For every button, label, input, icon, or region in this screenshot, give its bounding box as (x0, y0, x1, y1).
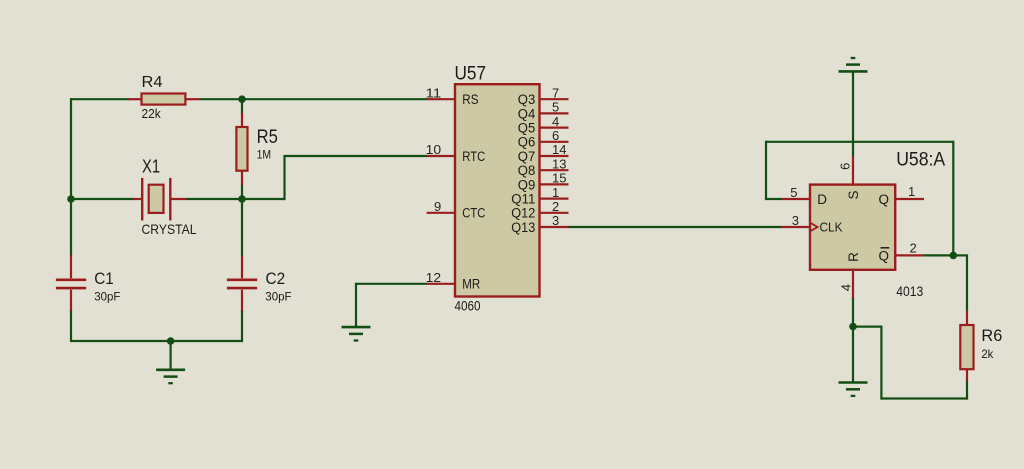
pin stub CLK U58 (781, 226, 810, 228)
svg-text:U57: U57 (455, 64, 487, 85)
svg-text:D: D (817, 192, 827, 207)
svg-text:Q: Q (878, 192, 889, 207)
pin stub Q9 U57 (540, 183, 569, 185)
ic U58:A body (810, 185, 895, 270)
svg-text:MR: MR (462, 277, 480, 292)
svg-text:Q5: Q5 (518, 121, 536, 136)
svg-text:1: 1 (908, 184, 915, 199)
wire bottom-right rail (881, 397, 968, 399)
svg-text:13: 13 (552, 156, 566, 171)
pin stub Qbar U58 (895, 254, 924, 256)
svg-text:X1: X1 (142, 155, 160, 176)
svg-text:CTC: CTC (462, 206, 485, 221)
svg-text:15: 15 (552, 171, 566, 186)
pin stub R U58 (852, 269, 854, 298)
svg-text:R4: R4 (142, 74, 163, 91)
ground MR (342, 326, 371, 329)
wire S to ground (852, 71, 854, 156)
svg-text:Q12: Q12 (511, 206, 535, 221)
crystal X1 (133, 198, 142, 200)
svg-text:Q13: Q13 (511, 220, 535, 235)
svg-text:R5: R5 (257, 127, 278, 148)
svg-text:RTC: RTC (462, 149, 485, 164)
wire feedback top (766, 141, 953, 143)
svg-text:4013: 4013 (896, 284, 923, 299)
resistor R4 (128, 98, 143, 100)
wire RTC jog vertical (283, 155, 285, 200)
pin stub Q5 U57 (540, 126, 569, 128)
svg-text:9: 9 (434, 199, 441, 214)
pin stub RS U57 (427, 98, 455, 100)
ground bottom-left (156, 368, 185, 371)
wire crystal row left segment (71, 198, 134, 200)
wire Q13 to CLK (569, 226, 782, 228)
wire R5 bottom to crystal row (241, 185, 243, 199)
svg-text:C2: C2 (266, 269, 286, 288)
svg-text:RS: RS (462, 92, 478, 107)
wire left rail vertical (70, 98, 72, 256)
svg-text:7: 7 (552, 85, 559, 100)
svg-text:2k: 2k (981, 347, 994, 361)
svg-text:6: 6 (838, 163, 853, 170)
node junction bottom rail / ground (167, 337, 175, 345)
wire net RS/R4 top-left segment (71, 98, 129, 100)
svg-text:2: 2 (552, 199, 559, 214)
wire RTC horizontal (285, 155, 428, 157)
wire crystal right segment (187, 198, 285, 200)
wire R pin to junction (852, 298, 854, 327)
resistor R5 (241, 113, 243, 128)
node junction Qbar/feedback/R6 (950, 252, 958, 260)
wire C1 bottom segment (70, 311, 72, 342)
wire R6 top vertical (966, 254, 968, 311)
wire feedback right vertical (952, 141, 954, 256)
node junction left-rail/crystal (67, 195, 75, 203)
svg-text:Q11: Q11 (511, 192, 535, 207)
svg-text:5: 5 (552, 100, 559, 115)
svg-text:11: 11 (426, 85, 442, 100)
svg-text:4060: 4060 (455, 299, 481, 314)
svg-text:Q8: Q8 (518, 163, 536, 178)
pin stub D U58 (781, 198, 810, 200)
svg-text:1M: 1M (257, 150, 272, 162)
svg-text:U58:A: U58:A (896, 149, 945, 170)
pin stub RTC U57 (427, 155, 455, 157)
svg-text:S: S (846, 190, 861, 199)
wire C2 top segment (241, 199, 243, 256)
pin stub Q11 U57 (540, 198, 569, 200)
wire ground stem bottom-left (170, 341, 172, 370)
svg-text:4: 4 (552, 114, 559, 129)
pin stub MR U57 (427, 283, 455, 285)
node junction crystal/R5/C2 (238, 195, 246, 203)
node junction R/ground (849, 323, 857, 331)
svg-text:3: 3 (792, 213, 799, 228)
pin stub CTC U57 (427, 212, 455, 214)
svg-text:R6: R6 (981, 327, 1002, 345)
svg-text:Q3: Q3 (518, 92, 536, 107)
svg-text:R: R (846, 252, 861, 262)
capacitor C2 (241, 255, 243, 278)
wire ground stem right (852, 327, 854, 383)
wire MR vertical (355, 283, 357, 327)
wire C2 bottom segment (241, 311, 243, 342)
svg-text:4: 4 (839, 284, 854, 291)
node junction R4/R5/RS (238, 95, 246, 103)
svg-text:Q: Q (878, 248, 889, 263)
svg-text:Q6: Q6 (518, 135, 536, 150)
wire D horizontal (766, 198, 782, 200)
svg-text:1: 1 (552, 185, 559, 200)
wire bottom rail (71, 340, 242, 342)
wire junction to R6 column (953, 254, 967, 256)
clock marker U58 (810, 223, 818, 232)
wire right-mid vertical (880, 327, 882, 400)
svg-text:22k: 22k (142, 106, 162, 121)
wire MR horizontal (356, 283, 427, 285)
svg-text:2: 2 (910, 241, 917, 256)
capacitor C1 (70, 255, 72, 278)
svg-text:Q4: Q4 (518, 106, 536, 121)
ground right (under R pin) (839, 381, 868, 384)
svg-text:Q9: Q9 (518, 177, 536, 192)
pin stub S U58 (852, 156, 854, 185)
svg-text:5: 5 (790, 185, 797, 200)
svg-text:CLK: CLK (820, 220, 843, 235)
ic U57 body (455, 84, 540, 296)
wire R4 to RS (199, 98, 427, 100)
svg-text:Q7: Q7 (518, 149, 536, 164)
pin stub Q3 U57 (540, 98, 569, 100)
resistor R6 (966, 310, 968, 325)
wire R5 top lead net (241, 99, 243, 113)
wire D vertical (765, 141, 767, 200)
pin stub Q4 U57 (540, 112, 569, 114)
wire R-junction horizontal (853, 326, 883, 328)
svg-text:3: 3 (552, 213, 559, 228)
pin stub Q U58 (895, 198, 924, 200)
pin stub Q7 U57 (540, 155, 569, 157)
pin stub Q8 U57 (540, 169, 569, 171)
svg-text:CRYSTAL: CRYSTAL (142, 221, 197, 237)
wire Qbar to junction (924, 254, 953, 256)
wire R6 bottom vertical (966, 381, 968, 400)
svg-text:12: 12 (426, 270, 442, 285)
svg-text:14: 14 (552, 142, 566, 157)
pin stub Q6 U57 (540, 141, 569, 143)
svg-text:30pF: 30pF (265, 289, 291, 303)
svg-text:30pF: 30pF (94, 289, 120, 303)
svg-text:C1: C1 (94, 269, 114, 288)
pin stub Q12 U57 (540, 212, 569, 214)
pin stub Q13 U57 (540, 226, 569, 228)
svg-text:10: 10 (426, 142, 442, 157)
ground top (flipped) (839, 70, 868, 73)
svg-text:6: 6 (552, 128, 559, 143)
